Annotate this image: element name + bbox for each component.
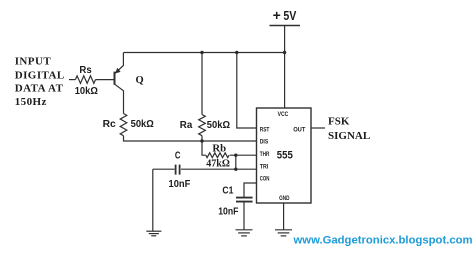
wire VCC vertical from +5V bar to IC VCC <box>284 26 286 109</box>
transistor Q emitter arrow <box>115 68 121 74</box>
svg-text:Q: Q <box>136 75 144 86</box>
wire RST from rail <box>237 53 257 129</box>
wire emitter vertical <box>115 53 124 74</box>
svg-text:47kΩ: 47kΩ <box>206 158 230 169</box>
wire Ra bottom to DIS node <box>201 136 203 141</box>
svg-text:Rs: Rs <box>79 64 91 76</box>
svg-text:Rc: Rc <box>103 118 116 130</box>
svg-text:+: + <box>273 7 281 23</box>
node dot rail-RST <box>235 51 238 54</box>
svg-text:FSK: FSK <box>328 115 350 127</box>
wire CON <box>244 183 257 197</box>
node dot Rb-THR <box>234 154 237 157</box>
transistor Q base bar <box>114 72 116 85</box>
svg-text:TRI: TRI <box>260 164 269 171</box>
svg-text:INPUT: INPUT <box>15 56 52 68</box>
wire Rc bottom to DIS <box>124 136 257 141</box>
wire THR to TRI link <box>235 155 237 169</box>
wire GND to ground <box>283 203 285 230</box>
svg-text:CON: CON <box>260 175 270 182</box>
svg-text:50kΩ: 50kΩ <box>131 118 154 130</box>
svg-text:10nF: 10nF <box>218 206 239 218</box>
svg-text:DIGITAL: DIGITAL <box>15 69 65 81</box>
svg-text:GND: GND <box>279 195 290 202</box>
capacitor C plates <box>175 165 177 175</box>
ground G2 <box>236 230 253 236</box>
node dot rail-VCC <box>283 51 286 54</box>
wire TRI horizontal <box>181 168 257 170</box>
svg-text:C: C <box>175 150 181 162</box>
svg-text:5V: 5V <box>283 9 297 23</box>
svg-text:www.Gadgetronicx.blogspot.com: www.Gadgetronicx.blogspot.com <box>293 234 473 246</box>
svg-text:VCC: VCC <box>278 111 289 118</box>
node dot Ra-DIS-Rb <box>200 139 203 142</box>
IC U1 555 box <box>257 108 312 203</box>
ground G3 <box>275 230 292 236</box>
svg-text:SIGNAL: SIGNAL <box>328 130 370 142</box>
resistor Ra 50k zigzag <box>199 115 206 136</box>
svg-text:Ra: Ra <box>180 119 193 131</box>
resistor Rs 10k zigzag <box>75 76 95 84</box>
svg-text:C1: C1 <box>222 185 233 197</box>
+5V supply bar <box>270 25 301 27</box>
resistor Rb 47k zigzag <box>206 153 229 158</box>
wire OUT <box>311 127 325 129</box>
wire Rb to THR <box>230 154 257 156</box>
wire base from Rs <box>96 79 115 81</box>
svg-text:Rb: Rb <box>212 143 226 154</box>
wire input to Rs <box>69 79 75 81</box>
svg-text:150Hz: 150Hz <box>15 96 47 108</box>
wire collector diagonal <box>115 84 124 113</box>
wire top rail <box>123 52 284 54</box>
wire C1 to ground <box>243 202 245 230</box>
svg-text:555: 555 <box>277 150 293 162</box>
svg-text:10nF: 10nF <box>169 178 191 190</box>
capacitor C1 plates <box>236 197 253 199</box>
wire node to Rb <box>202 141 206 155</box>
ground G1 <box>146 231 161 236</box>
svg-text:10kΩ: 10kΩ <box>75 85 98 97</box>
wire Ra top <box>201 53 203 115</box>
svg-text:THR: THR <box>260 151 270 158</box>
svg-text:DIS: DIS <box>260 139 269 146</box>
resistor Rc 50k zigzag <box>120 114 127 136</box>
wire C left lead <box>153 168 175 170</box>
svg-text:DATA AT: DATA AT <box>15 83 64 95</box>
node dot TRI link <box>234 168 237 171</box>
wire C to ground <box>152 169 154 231</box>
svg-text:RST: RST <box>260 126 270 133</box>
svg-text:OUT: OUT <box>293 126 305 133</box>
svg-text:50kΩ: 50kΩ <box>207 119 230 131</box>
node dot rail-Ra <box>200 51 203 54</box>
